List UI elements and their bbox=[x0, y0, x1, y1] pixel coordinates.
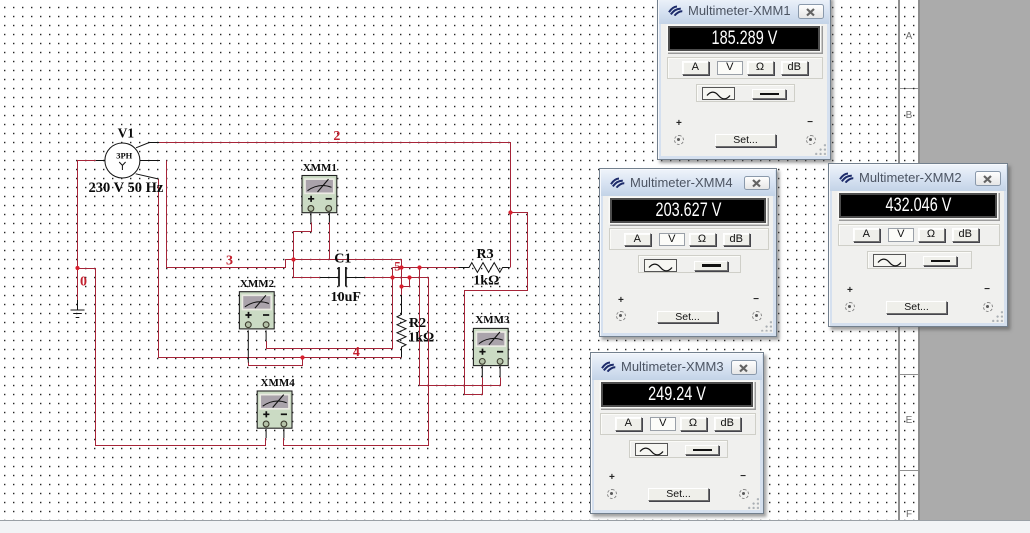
svg-text:R2: R2 bbox=[409, 316, 426, 331]
svg-text:0: 0 bbox=[80, 274, 87, 289]
svg-text:2: 2 bbox=[333, 129, 340, 144]
svg-text:XMM3: XMM3 bbox=[475, 314, 510, 326]
svg-text:4: 4 bbox=[353, 345, 360, 360]
svg-text:1kΩ: 1kΩ bbox=[408, 331, 434, 346]
svg-text:10uF: 10uF bbox=[331, 290, 361, 305]
svg-text:C1: C1 bbox=[334, 252, 351, 267]
svg-text:XMM4: XMM4 bbox=[261, 377, 296, 389]
svg-text:5: 5 bbox=[394, 259, 401, 274]
svg-text:R3: R3 bbox=[477, 247, 494, 262]
svg-text:XMM2: XMM2 bbox=[240, 278, 275, 290]
svg-text:XMM1: XMM1 bbox=[303, 162, 337, 174]
svg-text:230 V 50 Hz: 230 V 50 Hz bbox=[89, 180, 164, 196]
svg-text:3: 3 bbox=[226, 254, 233, 269]
svg-text:V1: V1 bbox=[118, 125, 135, 140]
svg-text:1kΩ: 1kΩ bbox=[473, 274, 499, 289]
svg-text:3PH: 3PH bbox=[116, 151, 132, 161]
